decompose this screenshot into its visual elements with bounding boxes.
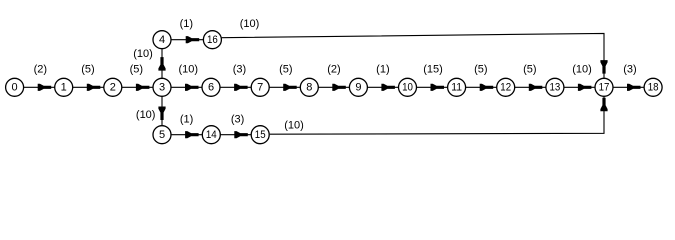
svg-text:2: 2 — [110, 82, 116, 94]
node 10 — [399, 78, 417, 96]
wire edge 11-12 — [457, 86, 506, 88]
svg-text:1: 1 — [61, 82, 67, 94]
svg-text:5: 5 — [159, 129, 165, 141]
wire edge 1-2 — [64, 86, 113, 88]
node 8 — [300, 78, 318, 96]
svg-text:18: 18 — [648, 82, 659, 94]
arrowhead edge 15-17 (up into 17) — [600, 98, 607, 112]
wire edge 10-11 — [408, 86, 457, 88]
node 12 — [497, 78, 515, 96]
node 3 — [153, 78, 171, 96]
svg-text:(1): (1) — [180, 114, 193, 126]
arrowhead edge 5-14 — [185, 131, 199, 138]
svg-text:9: 9 — [355, 82, 361, 94]
arrowhead edge 4-16 — [186, 36, 200, 43]
arrowhead edge 12-13 — [529, 84, 543, 91]
svg-text:(10): (10) — [284, 119, 304, 131]
svg-text:8: 8 — [306, 82, 312, 94]
svg-text:(15): (15) — [423, 64, 443, 76]
wire edge 14-15 — [211, 134, 260, 136]
arrowhead edge 11-12 — [480, 84, 494, 91]
svg-text:16: 16 — [207, 34, 218, 46]
arrowhead edge 14-15 — [234, 131, 248, 138]
node 13 — [546, 78, 564, 96]
arrowhead edge 3-5 (down) — [158, 107, 165, 121]
node 9 — [349, 78, 367, 96]
svg-text:11: 11 — [451, 82, 462, 94]
wire edge 5-14 — [162, 134, 211, 136]
node 14 — [202, 126, 220, 144]
svg-text:(5): (5) — [279, 64, 292, 76]
svg-text:0: 0 — [12, 82, 18, 94]
svg-text:(2): (2) — [327, 64, 340, 76]
arrowhead edge 16-17 (down into 17) — [600, 60, 607, 74]
node 17 — [595, 78, 613, 96]
arrowhead edge 3-4 (up) — [158, 57, 165, 71]
svg-text:(5): (5) — [81, 64, 94, 76]
arrowhead edge 17-18 — [627, 84, 641, 91]
wire edge 6-7 — [211, 86, 260, 88]
arrowhead edge 1-2 — [87, 84, 101, 91]
wire edge 16-17 — [222, 33, 604, 78]
wire edge 3-6 — [162, 86, 211, 88]
wire edge 3-5 — [161, 87, 163, 134]
node 1 — [55, 78, 73, 96]
arrowhead edge 8-9 — [332, 84, 346, 91]
node 4 — [153, 31, 171, 49]
node 5 — [153, 126, 171, 144]
wire edge 15-17 — [270, 97, 604, 135]
node 2 — [104, 78, 122, 96]
svg-text:7: 7 — [257, 82, 263, 94]
node 11 — [448, 78, 466, 96]
svg-text:(3): (3) — [231, 114, 244, 126]
svg-text:14: 14 — [206, 129, 217, 141]
arrowhead edge 7-8 — [283, 84, 297, 91]
svg-text:(10): (10) — [179, 64, 199, 76]
wire edge 9-10 — [358, 86, 407, 88]
wire edge 3-4 — [161, 40, 163, 88]
svg-text:(5): (5) — [474, 64, 487, 76]
arrowhead edge 3-6 — [185, 84, 199, 91]
arrowhead edge 13-17 — [578, 84, 592, 91]
svg-text:(10): (10) — [572, 64, 592, 76]
node 18 — [644, 78, 662, 96]
svg-text:3: 3 — [159, 82, 165, 94]
node 0 — [6, 78, 24, 96]
arrowhead edge 9-10 — [381, 84, 395, 91]
svg-text:17: 17 — [599, 82, 610, 94]
svg-text:(10): (10) — [136, 109, 156, 121]
node 15 — [251, 126, 269, 144]
node 16 — [203, 31, 221, 49]
svg-text:(1): (1) — [376, 64, 389, 76]
svg-text:15: 15 — [255, 129, 266, 141]
node 7 — [251, 78, 269, 96]
svg-text:(1): (1) — [180, 18, 193, 30]
svg-text:(10): (10) — [240, 18, 260, 30]
svg-text:(10): (10) — [133, 48, 153, 60]
svg-text:(2): (2) — [34, 64, 47, 76]
svg-text:4: 4 — [159, 34, 165, 46]
svg-text:(3): (3) — [233, 64, 246, 76]
arrowhead edge 0-1 — [38, 84, 52, 91]
svg-text:6: 6 — [208, 82, 214, 94]
arrowhead edge 6-7 — [234, 84, 248, 91]
svg-text:(3): (3) — [623, 64, 636, 76]
svg-text:13: 13 — [550, 82, 561, 94]
wire edge 17-18 — [604, 86, 653, 88]
wire edge 12-13 — [506, 86, 555, 88]
arrowhead edge 2-3 — [136, 84, 150, 91]
wire edge 4-16 — [162, 39, 212, 41]
arrowhead edge 10-11 — [431, 84, 445, 91]
wire edge 13-17 — [555, 86, 604, 88]
wire edge 8-9 — [309, 86, 358, 88]
wire edge 7-8 — [260, 86, 309, 88]
wire edge 2-3 — [113, 86, 162, 88]
wire edge 0-1 — [15, 86, 64, 88]
svg-text:12: 12 — [500, 82, 511, 94]
svg-text:(5): (5) — [523, 64, 536, 76]
svg-text:10: 10 — [402, 82, 413, 94]
svg-text:(5): (5) — [130, 64, 143, 76]
node 6 — [202, 78, 220, 96]
